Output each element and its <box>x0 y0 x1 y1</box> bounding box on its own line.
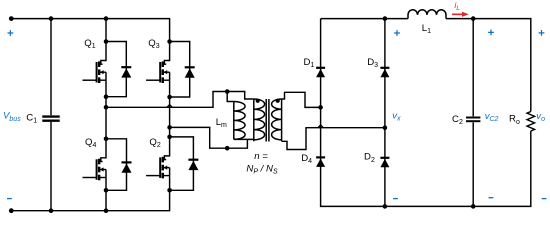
svg-text:Ro: Ro <box>509 114 520 126</box>
svg-text:C1: C1 <box>26 113 37 125</box>
svg-text:Q3: Q3 <box>148 38 159 50</box>
svg-text:vo: vo <box>536 111 545 123</box>
svg-text:NP / NS: NP / NS <box>246 164 278 176</box>
svg-text:L1: L1 <box>422 23 431 35</box>
svg-text:Vbus: Vbus <box>3 111 21 123</box>
svg-text:D1: D1 <box>304 57 315 69</box>
svg-text:n =: n = <box>254 151 268 162</box>
svg-text:vx: vx <box>392 111 401 123</box>
svg-text:C2: C2 <box>452 114 463 126</box>
svg-text:D3: D3 <box>367 57 378 69</box>
svg-text:D2: D2 <box>364 152 375 164</box>
svg-text:Q1: Q1 <box>84 38 95 50</box>
svg-text:Lm: Lm <box>216 117 227 129</box>
svg-text:D4: D4 <box>301 153 312 165</box>
svg-text:Q4: Q4 <box>85 137 96 149</box>
svg-text:vC2: vC2 <box>485 111 499 123</box>
svg-text:iL: iL <box>454 0 460 12</box>
svg-text:Q2: Q2 <box>149 137 160 149</box>
